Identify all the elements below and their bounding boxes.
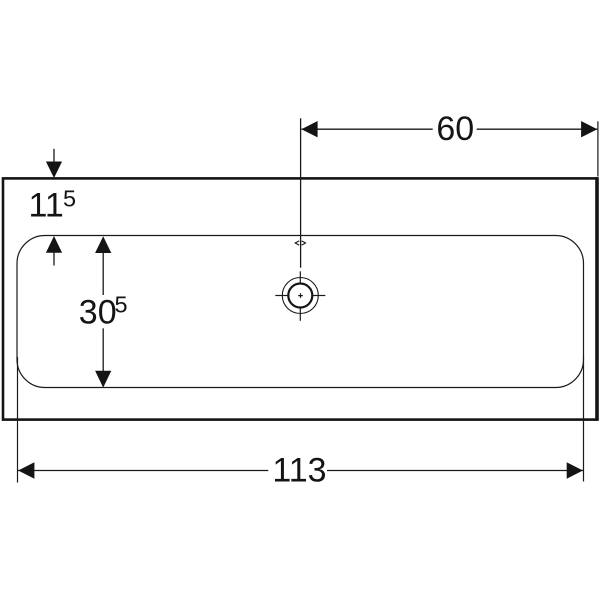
svg-text:5: 5 [63, 186, 76, 212]
dimension 30-5 line lower segment [102, 328, 104, 371]
dimension 11-5 up arrow tail [53, 253, 55, 266]
svg-text:11: 11 [29, 187, 64, 225]
dimension 30-5 up arrow [95, 236, 111, 253]
dimension 11-5 down arrow tail [53, 149, 55, 162]
basin inner rim [17, 236, 584, 388]
overflow mark left chevron [295, 241, 299, 245]
tap hole center cross [298, 293, 303, 298]
dimension 113 left extension line [17, 357, 19, 483]
dimension 30-5 down arrow [95, 371, 111, 388]
tap centerline [300, 118, 302, 267]
tap hole crosshair top [299, 271, 301, 284]
dimension 113 line right segment [327, 470, 584, 472]
svg-text:113: 113 [272, 451, 326, 489]
tap hole outer circle [282, 278, 318, 314]
dimension 11-5 up arrow [46, 236, 62, 253]
svg-text:5: 5 [115, 292, 128, 318]
tap hole crosshair right [312, 295, 325, 297]
dimension 113 left arrow [18, 462, 34, 478]
washbasin outer edge right thickening [595, 177, 597, 421]
tap hole crosshair left [275, 295, 288, 297]
tap hole inner circle [288, 284, 312, 308]
washbasin outer edge [3, 178, 598, 419]
dimension 11-5 down arrow [46, 162, 62, 179]
dimension 60 right extension line [597, 121, 599, 176]
overflow mark right chevron [302, 241, 306, 245]
dimension 113 right extension line [583, 357, 585, 482]
dimension 60 line right segment [477, 128, 598, 130]
dimension 113 right arrow [567, 462, 583, 478]
dimension 60 right arrow [581, 121, 597, 137]
svg-text:60: 60 [436, 110, 474, 148]
dimension 30-5 line upper segment [102, 253, 104, 295]
tap hole crosshair bottom [299, 308, 301, 321]
dimension 113 line left segment [18, 470, 269, 472]
svg-text:30: 30 [79, 293, 117, 331]
dimension 60 left arrow [301, 121, 317, 137]
dimension 60 line left segment [302, 128, 433, 130]
